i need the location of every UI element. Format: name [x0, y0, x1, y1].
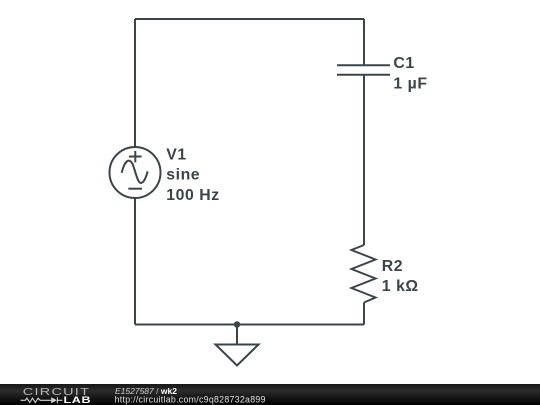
- footer bar: [0, 384, 540, 405]
- wire right middle (C1 bottom plate to R2 top): [363, 75, 365, 245]
- label V1 name/value "V1 / sine / 100 Hz": [166, 147, 219, 204]
- junction node (ground tap on bottom rail): [234, 321, 240, 327]
- svg-text:100 Hz: 100 Hz: [166, 187, 219, 204]
- svg-text:1 kΩ: 1 kΩ: [382, 278, 419, 295]
- wire right lower (R2 bottom to bottom rail): [363, 303, 365, 325]
- svg-text:sine: sine: [166, 167, 200, 184]
- CircuitLab logo wordmark CIRCUIT: [23, 386, 90, 397]
- voltage source V1: [110, 147, 161, 198]
- resistor R2: [352, 245, 376, 303]
- wire top (node from V1+ to C1): [135, 18, 364, 20]
- wire right upper (top to C1 top plate): [363, 19, 365, 65]
- svg-text:LAB: LAB: [64, 396, 92, 405]
- svg-text:R2: R2: [382, 258, 403, 275]
- footer url "http://circuitlab.com/c9q828732a899": [115, 395, 266, 405]
- ground: [216, 325, 259, 366]
- svg-text:http://circuitlab.com/c9q82873: http://circuitlab.com/c9q828732a899: [115, 395, 266, 405]
- svg-text:C1: C1: [393, 55, 414, 72]
- label C1 name/value "C1 / 1 uF": [393, 55, 427, 92]
- CircuitLab logo wordmark LAB: [64, 396, 92, 405]
- label R2 name/value "R2 / 1 kOhm": [382, 258, 419, 295]
- CircuitLab logo resistor-diode glyph: [21, 397, 63, 403]
- svg-text:V1: V1: [166, 147, 186, 164]
- wire left vertical (V1 branch): [134, 19, 136, 325]
- svg-text:1 µF: 1 µF: [393, 75, 427, 92]
- capacitor C1: [337, 65, 390, 75]
- footer circuit id "E1527587 / wk2": [115, 386, 177, 396]
- wire bottom rail (ground net): [135, 324, 364, 326]
